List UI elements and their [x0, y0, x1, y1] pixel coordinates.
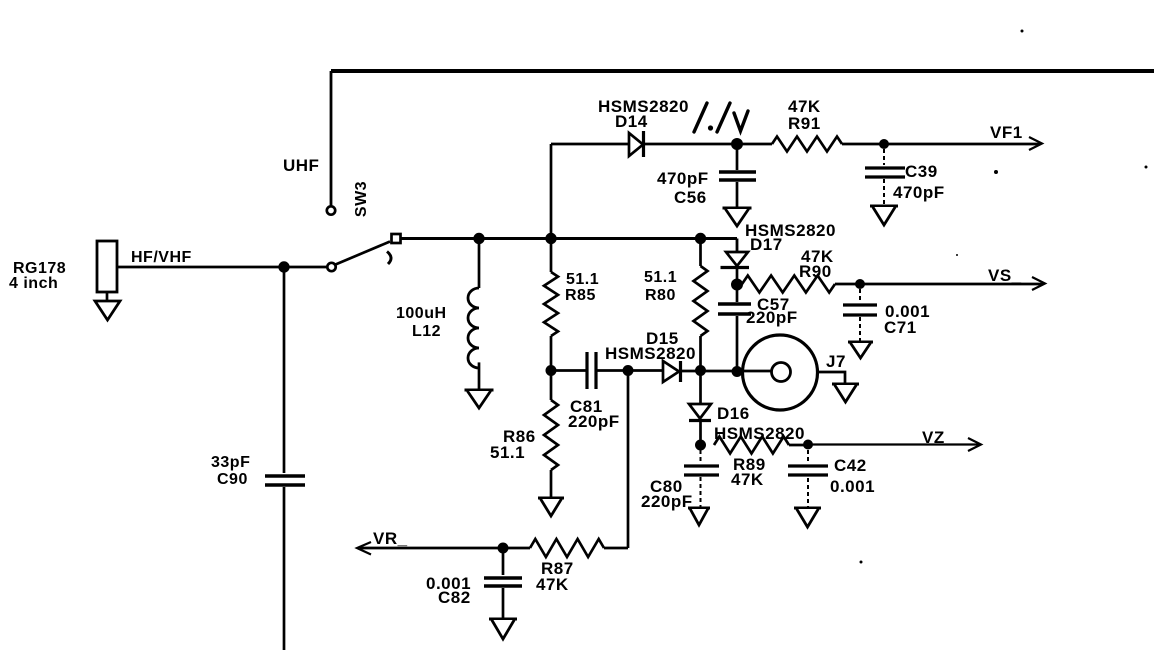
- svg-text:C90: C90: [217, 471, 248, 488]
- main bus wire y=238: [401, 237, 738, 240]
- connector J7: [743, 335, 846, 410]
- svg-text:C42: C42: [834, 456, 867, 475]
- wire C81 to D15: [597, 369, 663, 372]
- ground C56: [723, 207, 752, 210]
- svg-text:220pF: 220pF: [746, 308, 798, 327]
- top bus wire: [331, 69, 1154, 73]
- junction C42: [803, 440, 813, 450]
- capacitor C90: [211, 267, 305, 650]
- wire bus corner to D17: [736, 239, 739, 253]
- ground C71: [848, 341, 873, 344]
- svg-text:47K: 47K: [536, 575, 569, 594]
- svg-text:C82: C82: [438, 588, 471, 607]
- wire HF/VHF: [117, 266, 328, 269]
- capacitor C42 (dashed leads): [788, 450, 875, 507]
- ground C39: [870, 205, 898, 208]
- svg-text:51.1: 51.1: [644, 269, 677, 286]
- svg-text:47K: 47K: [731, 470, 764, 489]
- diode D15: [605, 329, 696, 382]
- svg-text:R85: R85: [565, 287, 596, 304]
- junction VR riser: [623, 365, 634, 376]
- junction D16/R89/C80: [695, 440, 706, 451]
- capacitor C56: [657, 144, 756, 207]
- svg-text:220pF: 220pF: [568, 412, 620, 431]
- capacitor C81: [568, 352, 620, 431]
- diode D16: [689, 371, 805, 445]
- mid wire y=371: [551, 369, 586, 372]
- wire D14 cathode: [644, 143, 737, 146]
- svg-text:VZ_: VZ_: [922, 428, 955, 447]
- junction C71: [855, 279, 865, 289]
- ground C42: [794, 507, 821, 510]
- svg-text:4 inch: 4 inch: [9, 275, 58, 292]
- ground C80: [688, 507, 710, 510]
- wire VF1 with arrow: [884, 137, 1042, 150]
- svg-text:470pF: 470pF: [657, 169, 709, 188]
- svg-text:R90: R90: [799, 262, 832, 281]
- scan speckles: [860, 30, 1148, 564]
- junction C57/J7: [732, 366, 743, 377]
- junction R85: [545, 233, 556, 244]
- svg-text:SW3: SW3: [353, 181, 370, 217]
- junction D14/C56: [731, 138, 743, 150]
- svg-text:C39: C39: [905, 162, 938, 181]
- capacitor C39 (dashed leads): [865, 149, 945, 205]
- resistor R80: [644, 239, 708, 371]
- wire VS_ with arrow: [860, 277, 1045, 290]
- svg-text:51.1: 51.1: [566, 271, 599, 288]
- connector RG178: [9, 241, 120, 320]
- switch SW3: [327, 181, 401, 271]
- svg-text:D14: D14: [615, 112, 648, 131]
- resistor R91: [737, 97, 884, 152]
- svg-text:R91: R91: [788, 114, 821, 133]
- junction R85/C81: [546, 365, 557, 376]
- diode D14: [598, 97, 689, 157]
- svg-text:L12: L12: [412, 323, 441, 340]
- inductor L12: [396, 239, 479, 390]
- svg-text:33pF: 33pF: [211, 454, 250, 471]
- diode D17: [721, 221, 836, 284]
- resistor R85: [544, 239, 599, 371]
- svg-text:HSMS2820: HSMS2820: [605, 344, 696, 363]
- capacitor C71 (dashed leads): [843, 289, 930, 341]
- wire D15 to J7: [681, 370, 772, 373]
- svg-text:HF/VHF: HF/VHF: [131, 249, 192, 266]
- resistor R87: [503, 539, 628, 594]
- resistor R86: [490, 371, 558, 498]
- wire D14 anode: [551, 143, 629, 146]
- junction L12: [473, 233, 484, 244]
- annotation 1.1V handwritten: [694, 103, 748, 132]
- svg-text:R80: R80: [645, 287, 676, 304]
- ground R86: [538, 497, 564, 500]
- svg-text:C71: C71: [884, 318, 917, 337]
- svg-text:100uH: 100uH: [396, 305, 447, 322]
- wire riser to VR line: [627, 371, 630, 548]
- svg-text:D16: D16: [717, 404, 750, 423]
- wire riser to D14: [550, 144, 553, 239]
- ground J7: [832, 383, 859, 386]
- svg-text:D17: D17: [750, 235, 783, 254]
- resistor R89: [714, 437, 808, 490]
- svg-text:51.1: 51.1: [490, 443, 525, 462]
- capacitor C57: [718, 284, 798, 371]
- capacitor C80 (dashed leads): [641, 450, 719, 511]
- svg-text:VF1: VF1: [990, 123, 1023, 142]
- ground L12: [465, 389, 494, 392]
- capacitor C82: [426, 548, 522, 618]
- junction D17/R90/C57: [731, 279, 743, 291]
- svg-text:220pF: 220pF: [641, 492, 693, 511]
- wire UHF riser: [330, 71, 333, 206]
- svg-text:470pF: 470pF: [893, 183, 945, 202]
- svg-text:VR_: VR_: [373, 529, 408, 548]
- svg-text:UHF: UHF: [283, 156, 319, 175]
- junction C39: [879, 139, 889, 149]
- ground C82: [489, 618, 517, 621]
- resistor R90: [742, 247, 860, 293]
- junction on HF/VHF wire: [278, 261, 289, 272]
- svg-text:C56: C56: [674, 188, 707, 207]
- junction R80: [695, 233, 706, 244]
- junction C82: [498, 543, 509, 554]
- svg-text:J7: J7: [826, 352, 846, 371]
- junction R80/D16 mid: [695, 365, 706, 376]
- svg-text:VS_: VS_: [988, 266, 1022, 285]
- wire VZ_ with arrow: [808, 438, 981, 451]
- svg-text:0.001: 0.001: [830, 477, 875, 496]
- wire VR_ with arrow: [357, 542, 503, 555]
